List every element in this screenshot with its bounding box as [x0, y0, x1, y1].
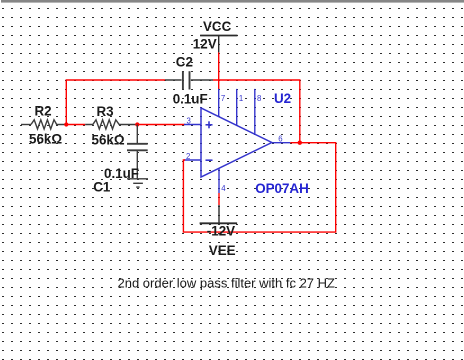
pin 7 [218, 89, 220, 117]
node C output junction [298, 141, 302, 145]
pin 4 [218, 168, 220, 193]
svg-text:4: 4 [221, 184, 226, 193]
svg-text:C1: C1 [93, 179, 111, 194]
minus marking [206, 159, 213, 161]
wire: R2 to R3 (red) [66, 124, 86, 126]
svg-text:56kΩ: 56kΩ [29, 132, 62, 147]
svg-text:56kΩ: 56kΩ [92, 133, 125, 148]
svg-text:2nd order low pass filter with: 2nd order low pass filter with fc 27 HZ [118, 275, 336, 290]
svg-text:VEE: VEE [209, 243, 236, 258]
svg-text:C2: C2 [176, 54, 193, 69]
plus marking [206, 124, 213, 126]
wire: pin4 black segment [218, 205, 220, 223]
node B junction R3/C1 [135, 122, 139, 126]
pin 1 [236, 89, 238, 126]
wire: pin4 red segment [218, 193, 220, 205]
wire: C2 to output riser (red) [213, 80, 300, 143]
svg-text:-12V: -12V [207, 224, 235, 239]
op-amp U2 [201, 108, 272, 177]
pin 8 [254, 89, 256, 134]
resistor R2 [31, 120, 66, 129]
svg-text:2: 2 [186, 152, 190, 161]
pin 6 output [272, 142, 291, 144]
wire: input lead to R2 [21, 124, 31, 126]
svg-text:R2: R2 [35, 104, 52, 119]
svg-text:1: 1 [239, 94, 243, 103]
VCC supply [200, 35, 237, 37]
svg-text:U2: U2 [274, 91, 291, 106]
svg-text:6: 6 [278, 135, 282, 144]
svg-text:12V: 12V [193, 36, 217, 51]
svg-text:3: 3 [187, 116, 191, 125]
top gray bar [1, 0, 464, 3]
wire: VCC drop (red) [218, 52, 220, 89]
node A junction R2/R3/C2 [64, 122, 68, 126]
pin 3 stub [184, 124, 201, 126]
svg-text:7: 7 [221, 94, 225, 103]
VEE supply [200, 222, 238, 224]
wire: R3 to op-amp + input (red) [137, 124, 185, 126]
capacitor C2 [165, 79, 182, 81]
svg-text:R3: R3 [97, 104, 114, 119]
svg-text:OP07AH: OP07AH [255, 181, 309, 196]
svg-text:8: 8 [257, 94, 261, 103]
wire: output net (red) [183, 143, 335, 232]
svg-text:VCC: VCC [203, 19, 232, 34]
ground [127, 178, 148, 180]
resistor R3 [85, 120, 137, 129]
pin 2 stub [184, 159, 201, 161]
capacitor C1 [136, 125, 138, 144]
svg-text:0.1uF: 0.1uF [173, 91, 208, 106]
wire: feedback riser to C2 (red) [66, 80, 165, 125]
